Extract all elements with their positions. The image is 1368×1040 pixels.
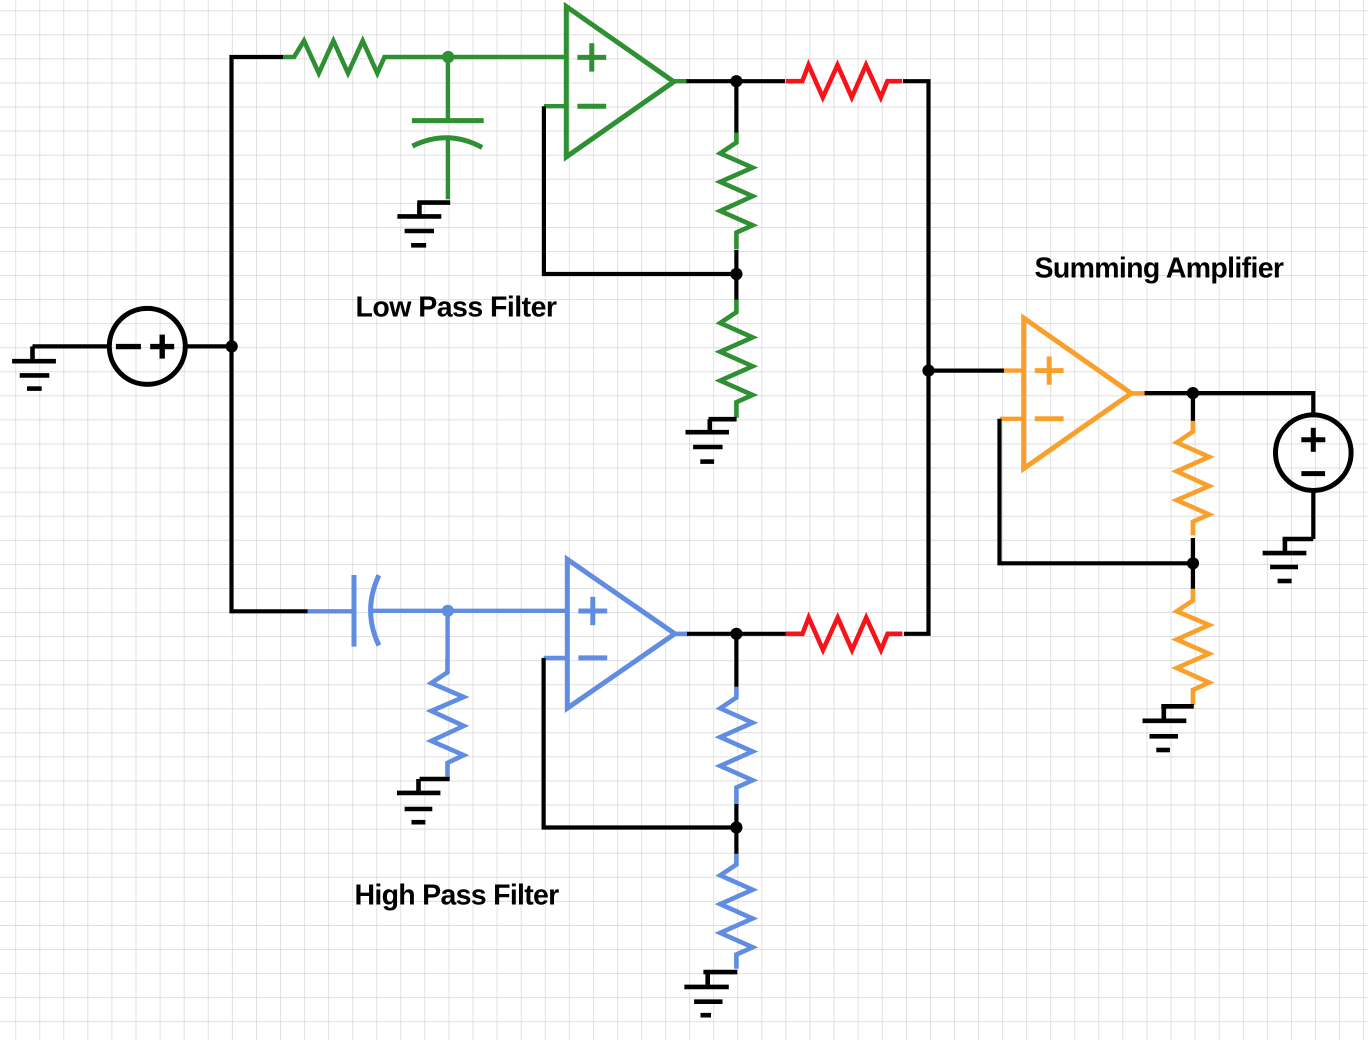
node D	[922, 365, 934, 377]
resistor R7	[720, 687, 752, 805]
node A	[226, 340, 238, 352]
node J	[1187, 387, 1199, 399]
wire	[1000, 417, 1024, 421]
wire	[445, 611, 449, 660]
resistor R8	[720, 854, 752, 969]
wire	[1191, 538, 1195, 589]
node H	[730, 628, 742, 640]
wire	[448, 609, 567, 613]
ground GND3	[686, 419, 737, 461]
wire	[544, 104, 566, 108]
resistor R10	[1177, 589, 1209, 705]
wire	[544, 658, 737, 828]
op-amp U3	[1024, 318, 1131, 469]
wire	[184, 344, 234, 348]
wire	[674, 79, 688, 83]
resistor R2	[786, 65, 903, 97]
wire	[232, 57, 308, 611]
wire	[734, 804, 738, 854]
wire	[734, 81, 738, 133]
node G	[730, 821, 742, 833]
resistor R4	[720, 300, 752, 418]
wire	[734, 250, 738, 300]
wire	[1145, 393, 1314, 415]
wire	[687, 632, 786, 636]
op-amp U2	[567, 559, 675, 708]
node C	[730, 75, 742, 87]
node B	[442, 51, 454, 63]
svg-text:High Pass Filter: High Pass Filter	[355, 880, 560, 912]
wire	[544, 106, 737, 274]
ground GND5	[397, 779, 450, 822]
ground GND1	[12, 346, 56, 388]
node I	[1187, 557, 1199, 569]
svg-text:Summing Amplifier: Summing Amplifier	[1035, 252, 1284, 284]
wire	[1000, 419, 1194, 564]
wire	[390, 55, 566, 59]
wire	[734, 634, 738, 687]
op-amp U1	[566, 7, 674, 157]
resistor R3	[720, 133, 752, 250]
ground GND7	[1263, 539, 1314, 581]
ground GND6	[1143, 706, 1194, 750]
resistor R5	[431, 659, 463, 777]
capacitor C1	[412, 57, 484, 199]
capacitor C2	[308, 575, 448, 647]
label Summing Amplifier	[1035, 252, 1284, 284]
wire	[1191, 393, 1195, 421]
ground GND2	[397, 203, 450, 246]
voltage source V2	[1276, 415, 1352, 491]
wire	[687, 79, 786, 83]
wire	[929, 369, 1006, 373]
voltage source V1	[109, 308, 185, 384]
svg-text:Low Pass Filter: Low Pass Filter	[356, 292, 557, 324]
wire	[903, 81, 929, 634]
wire	[674, 632, 688, 636]
label High Pass Filter	[355, 880, 560, 912]
label Low Pass Filter	[356, 292, 557, 324]
wire	[544, 656, 568, 660]
node E	[730, 268, 742, 280]
wire	[1311, 492, 1315, 539]
wire	[1004, 368, 1024, 372]
wire	[33, 344, 108, 348]
wire	[1130, 391, 1145, 395]
resistor R9	[1177, 421, 1209, 536]
resistor R1	[283, 41, 390, 73]
node F	[442, 605, 454, 617]
ground GND4	[684, 972, 737, 1015]
resistor R6	[786, 618, 903, 650]
